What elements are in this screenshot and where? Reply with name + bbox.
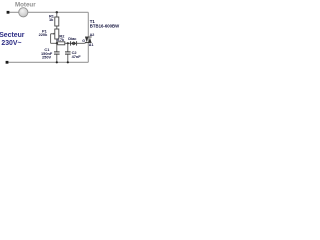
svg-text:Diac: Diac: [68, 36, 77, 41]
resistor R2: [58, 42, 65, 45]
node C1 bottom: [56, 61, 58, 63]
resistor R1: [55, 17, 59, 26]
svg-text:230V~: 230V~: [1, 40, 21, 47]
capacitor C2: [67, 43, 69, 51]
svg-text:BTB16-600BW: BTB16-600BW: [90, 24, 120, 29]
svg-text:220k: 220k: [39, 32, 48, 37]
svg-text:A1: A1: [89, 43, 94, 47]
svg-text:47nF: 47nF: [72, 54, 82, 59]
potentiometer wiper arrow: [51, 33, 54, 35]
wire R2 to diac: [65, 42, 71, 44]
svg-text:Moteur: Moteur: [15, 1, 36, 8]
node C2 tap: [67, 42, 69, 44]
capacitor C1: [56, 43, 58, 51]
diac D1: [70, 41, 72, 45]
svg-text:4.7k: 4.7k: [57, 37, 65, 42]
node C1 tap: [56, 42, 58, 44]
wire node to R1: [56, 12, 58, 17]
wire bottom rail: [7, 61, 88, 63]
triac T1: [85, 36, 92, 38]
wire P1 to node: [56, 39, 58, 43]
wire wiper to node: [51, 42, 58, 44]
potentiometer P1: [55, 29, 59, 39]
wire diac to gate: [77, 41, 87, 44]
svg-text:Secteur: Secteur: [0, 32, 25, 39]
svg-text:A2: A2: [90, 33, 95, 37]
node junction top (R1 tap): [56, 11, 58, 13]
wire wiper down: [50, 34, 52, 44]
svg-text:250V: 250V: [42, 55, 51, 60]
node C2 bottom: [67, 61, 69, 63]
terminal bottom-left: [6, 61, 9, 64]
terminal top-left: [7, 11, 10, 14]
svg-text:G: G: [82, 39, 85, 43]
motor M (circle): [19, 8, 28, 17]
wire R1 to P1: [56, 26, 58, 29]
wire right rail vertical: [87, 12, 89, 62]
wire top rail: [8, 11, 88, 13]
